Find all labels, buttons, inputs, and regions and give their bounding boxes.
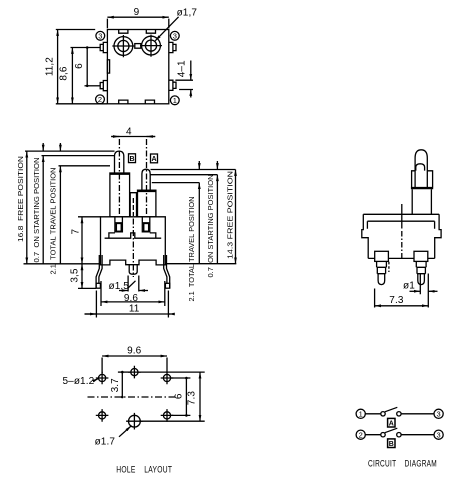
dim 3.7 line bbox=[121, 372, 123, 397]
side left pin shoulder bbox=[375, 251, 389, 261]
circuit terminal 3 upper bbox=[434, 409, 443, 418]
circled terminal 3 top-right bbox=[170, 31, 179, 40]
dia 1 extension lines bbox=[420, 274, 428, 308]
dim 16.8 free position line bbox=[26, 151, 28, 264]
terminal tab upper-right bbox=[169, 42, 176, 52]
dim 8.6 line bbox=[71, 48, 73, 104]
side stem bbox=[412, 189, 431, 214]
hole bottom-center large bbox=[129, 415, 141, 427]
dim 4 line bbox=[111, 136, 155, 138]
svg-text:HOLE LAYOUT: HOLE LAYOUT bbox=[116, 464, 172, 475]
hole bottom-left bbox=[99, 412, 106, 419]
dim 7.3 line bbox=[199, 372, 201, 421]
dim 6 extension line bbox=[85, 85, 101, 87]
dim 0.7 left arrow above bbox=[42, 143, 44, 151]
right extension lines bbox=[151, 170, 237, 264]
circuit wires row 2 bbox=[365, 434, 434, 436]
circuit switch arm row 1 bbox=[385, 407, 398, 412]
svg-text:4: 4 bbox=[126, 126, 132, 137]
dia 1.7 leader bbox=[119, 426, 131, 437]
dim 9.6 extension lines bbox=[101, 281, 165, 306]
dim 3.5 line bbox=[81, 264, 83, 289]
svg-text:2: 2 bbox=[359, 430, 363, 439]
circuit contacts row 2 bbox=[381, 433, 385, 437]
cavity line with center post bbox=[105, 233, 162, 238]
svg-text:A: A bbox=[151, 156, 156, 163]
svg-text:CIRCUIT DIAGRAM: CIRCUIT DIAGRAM bbox=[368, 458, 437, 469]
dim 4-1 lower arrow line bbox=[190, 90, 192, 98]
button A cross marks bbox=[140, 35, 162, 57]
svg-text:ø1.5: ø1.5 bbox=[109, 281, 130, 292]
dim 2.1 right arrow above bbox=[198, 161, 200, 170]
top edge tabs bbox=[119, 30, 156, 34]
svg-text:5–ø1.2: 5–ø1.2 bbox=[63, 376, 95, 387]
svg-text:4–1: 4–1 bbox=[177, 60, 188, 77]
dim 7.3 ext bbox=[138, 372, 205, 421]
svg-text:8,6: 8,6 bbox=[59, 66, 70, 81]
svg-text:ø1: ø1 bbox=[403, 281, 415, 292]
dim 9 line bbox=[107, 16, 168, 18]
right leg bbox=[164, 255, 170, 288]
dim 2.1 right line bbox=[198, 183, 200, 264]
hole layout centerline bbox=[88, 396, 178, 398]
hole top-right bbox=[163, 374, 170, 381]
svg-text:16.8 FREE POSITION: 16.8 FREE POSITION bbox=[16, 156, 25, 242]
dim 9.6 line bbox=[101, 301, 165, 303]
side left pin tip bbox=[378, 274, 385, 285]
dim 2.1 left arrow above bbox=[59, 143, 61, 151]
circled terminal 2 bottom-left bbox=[96, 95, 105, 104]
side right pin shoulder bbox=[414, 251, 428, 261]
side right pin segments bbox=[416, 261, 426, 273]
circuit terminal 2 bbox=[356, 430, 365, 439]
svg-text:ø1.7: ø1.7 bbox=[95, 437, 116, 448]
dim 6 line with dot ends bbox=[86, 48, 88, 86]
hole bottom-right bbox=[163, 412, 170, 419]
button B (left) circles bbox=[114, 37, 133, 56]
svg-text:3: 3 bbox=[437, 409, 441, 418]
button A (right) circles bbox=[142, 36, 161, 55]
guide slot right bbox=[142, 217, 150, 232]
dia 1.5 extension lines bbox=[128, 276, 139, 292]
side dome B bbox=[415, 150, 427, 188]
hole top-left bbox=[99, 374, 106, 381]
svg-text:2.1 TOTAL TRAVEL POSITION: 2.1 TOTAL TRAVEL POSITION bbox=[49, 168, 58, 275]
dim 9.6 holes line bbox=[102, 355, 167, 357]
box A front view bbox=[151, 154, 158, 163]
left leg bbox=[96, 255, 102, 288]
body outline bbox=[101, 217, 166, 265]
terminal tab upper-left bbox=[100, 42, 107, 52]
dim 3.7 ext bbox=[118, 371, 131, 373]
circled terminal 3 top-left bbox=[96, 31, 105, 40]
button B cross marks bbox=[112, 35, 134, 57]
box B circuit bbox=[388, 439, 395, 448]
middle boss bbox=[130, 193, 136, 217]
dim 11.2 extension lines bbox=[56, 30, 107, 104]
dim 7 line bbox=[81, 217, 83, 264]
guide slot left bbox=[115, 217, 123, 232]
svg-text:1: 1 bbox=[173, 96, 177, 105]
dim 4-1 extension lines bbox=[175, 80, 193, 89]
circuit contacts row 1 bbox=[381, 412, 385, 416]
5-dia1.2 leader bbox=[94, 378, 98, 380]
left extension lines bbox=[24, 151, 115, 288]
plunger centerlines dashed bbox=[118, 139, 120, 216]
hidden dashed line near left pin bbox=[388, 262, 390, 272]
dim 14.3 free position line bbox=[235, 170, 237, 264]
dia 1.5 arrows bbox=[119, 290, 128, 292]
left mid edge tab bbox=[107, 60, 109, 73]
circuit terminal 3 lower bbox=[434, 430, 443, 439]
box B front view bbox=[129, 154, 136, 163]
plunger A tube bbox=[138, 190, 156, 217]
side left pin segments bbox=[377, 261, 387, 273]
circled terminal 1 bottom-right bbox=[170, 96, 179, 105]
side flange top bbox=[363, 214, 439, 221]
hole top-center bbox=[131, 369, 138, 376]
dia 1.5 leader bbox=[128, 281, 136, 289]
svg-text:6: 6 bbox=[74, 63, 85, 69]
svg-text:7.3: 7.3 bbox=[186, 391, 197, 406]
side flange right edge and tab bbox=[435, 214, 442, 258]
dim 11 line bbox=[85, 313, 171, 315]
dim 11.2 line bbox=[57, 30, 59, 104]
svg-text:11,2: 11,2 bbox=[44, 57, 55, 76]
body centerline dash-dot bbox=[132, 219, 134, 278]
svg-text:3.7: 3.7 bbox=[110, 378, 121, 393]
side tube top thick bbox=[411, 187, 433, 189]
connector bar between buttons bbox=[135, 44, 141, 49]
svg-text:1: 1 bbox=[359, 409, 363, 418]
svg-text:2.1 TOTAL TRAVEL POSITION: 2.1 TOTAL TRAVEL POSITION bbox=[187, 197, 196, 302]
svg-text:9.6: 9.6 bbox=[124, 293, 139, 304]
svg-text:3: 3 bbox=[437, 430, 441, 439]
dim 2.1 left line bbox=[59, 166, 61, 264]
dim 0.7 right line bbox=[216, 175, 218, 264]
side right pin tip bbox=[418, 274, 425, 285]
circuit terminal 1 bbox=[356, 409, 365, 418]
top view body outline bbox=[107, 30, 168, 104]
dim 7.3 extension line bbox=[374, 289, 376, 308]
dia 1 arrows bbox=[410, 290, 421, 292]
dim 11 extension lines bbox=[96, 291, 168, 318]
svg-text:3: 3 bbox=[98, 31, 102, 40]
svg-text:2: 2 bbox=[98, 95, 102, 104]
dim 0.7 right arrow above bbox=[216, 161, 218, 170]
svg-text:9: 9 bbox=[134, 7, 140, 18]
svg-text:B: B bbox=[389, 441, 394, 448]
svg-text:14.3 FREE POSITION: 14.3 FREE POSITION bbox=[226, 171, 235, 259]
terminal tab lower-left bbox=[100, 81, 107, 91]
svg-text:7: 7 bbox=[70, 229, 81, 235]
dim 9.6 holes ext bbox=[102, 358, 167, 374]
svg-text:7.3: 7.3 bbox=[389, 295, 404, 306]
side dome A bbox=[416, 164, 425, 171]
svg-text:3: 3 bbox=[173, 31, 177, 40]
circuit switch arm row 2 bbox=[385, 428, 398, 433]
dim 8.6 extension line bbox=[71, 47, 101, 49]
circuit wires row 1 bbox=[365, 413, 434, 415]
svg-text:0.7 ON STARTING POSITION: 0.7 ON STARTING POSITION bbox=[206, 174, 215, 277]
svg-text:0.7 ON STARTING POSITION: 0.7 ON STARTING POSITION bbox=[32, 158, 41, 263]
svg-text:A: A bbox=[389, 420, 394, 427]
svg-text:B: B bbox=[129, 156, 134, 163]
side collar bbox=[412, 171, 433, 188]
dim 0.7 left line bbox=[42, 156, 44, 264]
plunger B cap bbox=[115, 151, 124, 173]
dim 7.3 line bbox=[375, 305, 429, 307]
side flange left edge and tab bbox=[362, 214, 368, 258]
svg-text:11: 11 bbox=[129, 304, 140, 315]
svg-text:3,5: 3,5 bbox=[70, 268, 81, 283]
box A circuit bbox=[388, 418, 395, 427]
dim 9 extension lines bbox=[107, 19, 168, 29]
bottom edge tabs bbox=[119, 100, 155, 104]
dia 1.7 leader bbox=[155, 17, 178, 41]
bottom pin bbox=[129, 265, 137, 275]
side centerline dash-dot bbox=[401, 204, 403, 229]
svg-text:9.6: 9.6 bbox=[127, 346, 142, 357]
dim 6 line bbox=[185, 378, 187, 415]
terminal tab lower-right bbox=[169, 80, 176, 90]
dim 4-1 upper arrow line bbox=[190, 61, 192, 81]
svg-text:6: 6 bbox=[174, 393, 185, 399]
plunger A cap bbox=[142, 169, 150, 190]
side body bottom bbox=[368, 257, 435, 259]
dim 6 ext bbox=[171, 378, 191, 415]
svg-text:ø1,7: ø1,7 bbox=[177, 7, 198, 18]
plunger B tube bbox=[110, 173, 130, 217]
